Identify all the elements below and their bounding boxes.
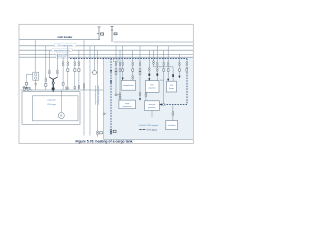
label box battery breaker	[56, 53, 69, 56]
feeder x94.5 motor	[94, 46, 96, 71]
contactor x63.1	[62, 62, 64, 85]
arrow end x140	[139, 98, 141, 100]
svg-text:emergency supply cable: emergency supply cable	[98, 85, 100, 104]
wire to air blower	[172, 105, 174, 121]
fittings x84	[83, 84, 85, 90]
contactor x168.2	[167, 62, 169, 71]
feeder x116	[115, 46, 117, 96]
feeder x122.7 to A	[122, 46, 124, 80]
box D cargo compressor	[119, 100, 135, 109]
feeder x179.5	[179, 54, 181, 76]
contactor x74.8	[74, 62, 76, 72]
box B LPG vaporiser	[145, 81, 159, 93]
wire fuse to pump	[26, 85, 28, 88]
contactor x49.4	[49, 70, 51, 74]
starter box U1	[33, 72, 39, 80]
contactor x132.7	[132, 62, 134, 79]
wire to cargo pump	[60, 90, 62, 113]
svg-text:generator: generator	[148, 106, 156, 109]
feeder x35	[34, 40, 36, 72]
svg-text:LPG cargo breaker: LPG cargo breaker	[58, 45, 74, 47]
contactor x140	[139, 62, 141, 96]
contactor air blower	[172, 112, 174, 116]
svg-text:cargo: cargo	[125, 103, 130, 105]
feeder x63.1	[62, 57, 64, 90]
svg-text:cargo switchboard room: cargo switchboard room	[94, 85, 97, 105]
breaker S1	[97, 27, 104, 40]
svg-text:Figure 5.76: heating of a carg: Figure 5.76: heating of a cargo tank	[75, 140, 132, 144]
busbar L2	[19, 45, 193, 47]
feeder x57.4 (Y right)	[56, 54, 58, 77]
feeder x140	[139, 46, 141, 99]
feeder x157.3 to B	[156, 46, 158, 81]
busbar L4	[19, 53, 193, 55]
cargo pump motor M	[58, 113, 64, 119]
svg-text:LPG liquid: LPG liquid	[147, 129, 156, 131]
svg-text:heater: heater	[169, 87, 174, 90]
Y diagonals	[49, 77, 57, 79]
legend LPG liquid	[139, 129, 156, 131]
machinery space left boundary	[103, 57, 105, 139]
svg-text:LPG: LPG	[170, 85, 174, 87]
arrow into E	[159, 103, 161, 105]
contactor x116	[115, 62, 117, 74]
svg-text:reliquefaction: reliquefaction	[123, 84, 134, 87]
feeder x84	[83, 40, 85, 136]
svg-text:inert gas: inert gas	[148, 103, 155, 106]
svg-text:LPG cargo: LPG cargo	[47, 104, 56, 106]
contactor x149.3	[149, 68, 151, 72]
deck line	[21, 89, 104, 91]
svg-text:air blower: air blower	[168, 125, 176, 127]
contactor x179.5	[179, 62, 181, 71]
box A reliquefaction plant	[121, 81, 135, 91]
arrow end x179.5	[178, 76, 180, 78]
circle on heavy feeder	[52, 82, 54, 84]
fitting on zone edge	[103, 113, 106, 115]
LPG dashed riser x111	[110, 59, 112, 133]
deck fitting c	[74, 85, 80, 88]
svg-text:LPG vapour: LPG vapour	[147, 124, 158, 127]
pump cluster P1	[23, 86, 32, 90]
wire E tail	[151, 111, 153, 118]
machinery space bottom boundary	[104, 138, 193, 140]
deck fitting b	[66, 87, 69, 90]
feeder x163.7 to E inlet valve	[163, 50, 165, 103]
feeder x90	[89, 46, 91, 136]
valve solid segment on riser	[110, 80, 112, 83]
svg-text:inert breaker: inert breaker	[57, 56, 67, 59]
svg-text:compressor: compressor	[122, 106, 132, 108]
arrow riser bottom	[110, 133, 112, 135]
feeder x132.7 to A	[132, 50, 134, 80]
wire branch left	[27, 74, 33, 82]
cargo tank inner shell	[32, 96, 78, 121]
valve on E inlet	[163, 103, 165, 105]
valve x116	[115, 94, 119, 96]
label box inert breaker	[56, 56, 68, 59]
box C LPG heater	[167, 81, 177, 92]
fuse F1	[25, 82, 27, 85]
contactor x163.7	[163, 62, 165, 71]
busbar L5	[19, 56, 193, 58]
ground symbol under starter	[34, 84, 37, 86]
label box LPG cargo breaker	[55, 43, 77, 47]
feeder x168.2 to C	[167, 46, 169, 81]
arrow into A	[122, 78, 124, 80]
svg-text:battery breaker: battery breaker	[57, 53, 69, 56]
motor on x94.5	[92, 71, 98, 75]
wire valve V1 tail	[97, 135, 99, 137]
LPG dashed main top run	[70, 58, 187, 60]
contactor x120	[119, 62, 121, 99]
busbar L1a	[19, 39, 100, 41]
arrow mid riser	[110, 70, 112, 72]
svg-text:M: M	[60, 115, 62, 118]
dark junction box	[52, 88, 55, 91]
elbow feeder x153.5 to C	[154, 50, 174, 81]
heavy feeder x53.2	[52, 79, 54, 98]
contactor x57.4	[57, 70, 59, 74]
wire starter to deck	[35, 80, 37, 90]
LPG dashed run into E	[160, 104, 187, 106]
contactor x186.6 on dashed column	[186, 62, 188, 71]
svg-text:cargo tank: cargo tank	[47, 98, 55, 101]
meter box on riser	[114, 59, 119, 62]
valve V2 on riser	[110, 130, 116, 134]
valve V1	[97, 131, 103, 135]
feeder x49.4 (Y left)	[48, 50, 50, 77]
box F air blower	[166, 121, 178, 130]
arrow into B	[148, 78, 150, 80]
svg-text:vaporiser: vaporiser	[148, 88, 156, 90]
contactor x153.5	[153, 61, 155, 65]
busbar L3	[19, 49, 193, 51]
box E inert gas generator	[145, 101, 160, 111]
arrow into C	[167, 79, 169, 81]
legend LPG vapour	[139, 124, 158, 127]
breaker S2	[111, 26, 118, 42]
page background	[0, 0, 240, 170]
feeder x149.3 to B	[148, 50, 150, 80]
link B bottom to E top	[145, 92, 147, 101]
contactor x45.8	[45, 78, 47, 86]
machinery space tinted zone	[104, 57, 193, 139]
feeder x74.8	[74, 57, 76, 90]
feeder x120 to D	[119, 50, 121, 100]
valve on C drop	[172, 74, 174, 77]
contactor x67.8	[67, 62, 69, 72]
cargo tank outer shell	[22, 92, 80, 125]
feeder x78.9	[78, 50, 80, 90]
LPG dashed right drop	[186, 59, 188, 105]
figure border frame	[19, 24, 193, 143]
feeder x67.8	[67, 46, 69, 90]
contactor x78.9	[78, 62, 80, 72]
feeder x97.5	[97, 50, 99, 131]
contactor x157.3	[157, 62, 159, 71]
feeder x45.8	[45, 46, 47, 90]
svg-text:LPG: LPG	[150, 85, 154, 87]
svg-text:main breaker: main breaker	[58, 36, 73, 39]
busbar L1b	[114, 41, 194, 43]
circles on link	[145, 93, 147, 97]
contactor x122.7	[122, 62, 124, 71]
label box reliquefaction breaker	[52, 48, 72, 52]
